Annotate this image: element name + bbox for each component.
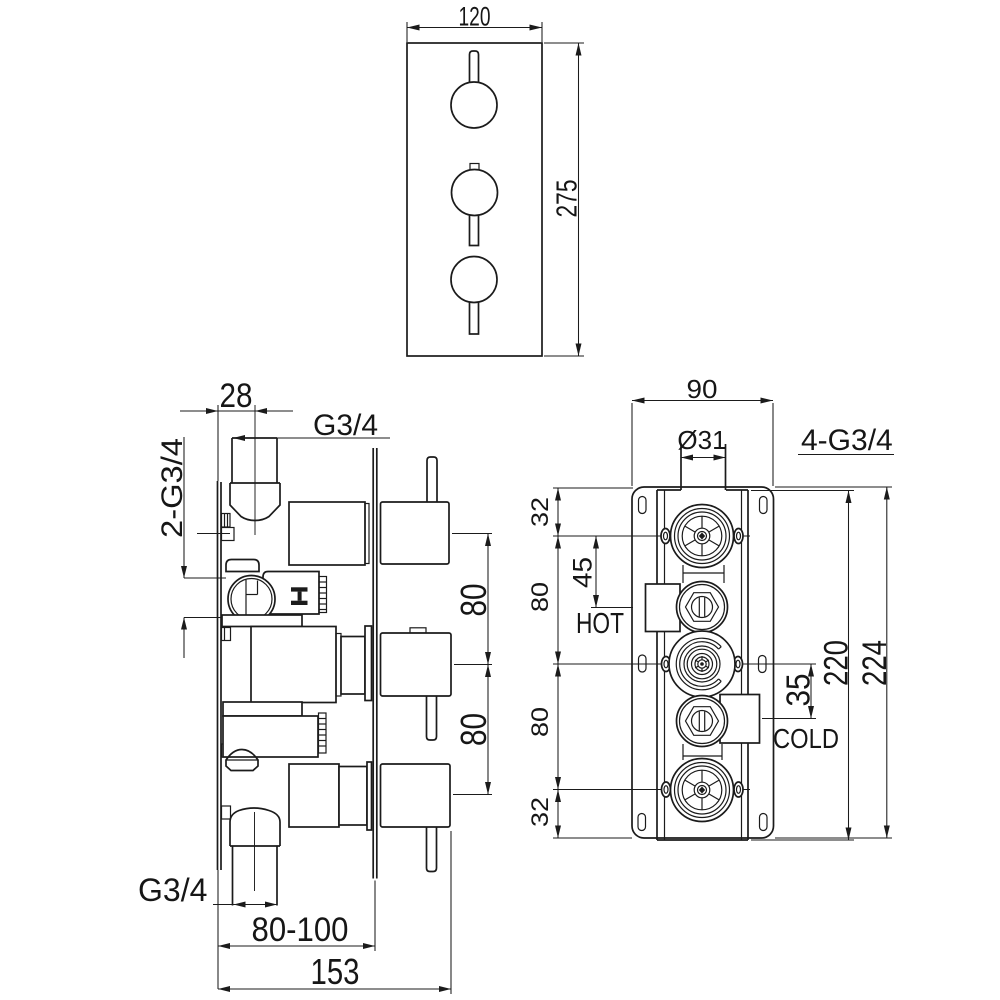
face plate [407, 43, 542, 356]
bottom pipe centerline [254, 812, 256, 891]
dimension 28 line [180, 410, 293, 412]
plate tab 1 [222, 528, 235, 541]
svg-text:32: 32 [527, 497, 554, 527]
svg-text:224: 224 [856, 640, 894, 686]
dimension 80-100 extension right [374, 881, 376, 952]
svg-text:G3/4: G3/4 [138, 872, 207, 908]
handle 3 knob [451, 257, 497, 303]
svg-text:28: 28 [220, 377, 253, 415]
port 5 ears [662, 782, 671, 797]
svg-text:45: 45 [568, 557, 598, 588]
svg-text:35: 35 [780, 674, 817, 707]
port connector 1-2 [682, 565, 684, 583]
screw slot bottom-right [760, 814, 768, 831]
svg-text:80: 80 [453, 584, 494, 617]
cartridge cap row2 [226, 560, 259, 572]
handle 3 stem [470, 300, 479, 334]
knob row1 [381, 502, 450, 564]
handle 2 knob [452, 170, 498, 216]
svg-text:2-G3/4: 2-G3/4 [156, 438, 189, 538]
dimension 80 lower line [557, 664, 559, 790]
dimension 220 line [848, 491, 850, 841]
knob row5 [381, 764, 451, 827]
valve body row3 [251, 627, 336, 703]
mounting plate [632, 487, 774, 838]
svg-text:COLD: COLD [773, 723, 839, 754]
top pipe stub [680, 444, 682, 490]
dimension 90 line [632, 400, 773, 402]
plate screw boss 3 [222, 744, 231, 757]
body spine bottom edge [657, 839, 748, 841]
body spine top edge [657, 489, 681, 491]
svg-text:80-100: 80-100 [252, 911, 349, 949]
spindle row5 [339, 767, 367, 826]
knob row3 tab [410, 628, 426, 633]
svg-text:32: 32 [527, 797, 554, 827]
svg-text:HOT: HOT [576, 608, 624, 640]
rear port reference line lower (2-G3/4) [184, 617, 221, 619]
screw slot top-left [639, 497, 647, 514]
dimension 80 (upper) line [487, 534, 489, 665]
plate screw boss 4 [222, 806, 231, 819]
left chain extension bottom [553, 837, 632, 839]
wall plate (thin bracket, two lines) [217, 481, 219, 870]
svg-text:4-G3/4: 4-G3/4 [801, 424, 893, 457]
svg-text:80: 80 [527, 707, 554, 737]
top inlet pipe [231, 438, 233, 483]
label 4-G3/4 underline [798, 454, 894, 456]
row1 center extension [452, 533, 492, 535]
dimension 120 extension lines [406, 22, 408, 42]
port 1 centerline [553, 535, 750, 537]
handle 2 tab [470, 164, 479, 171]
port 2 (hex plug) [677, 582, 728, 633]
cartridge keyway [245, 580, 247, 619]
plate bottom extension right [775, 837, 892, 839]
cartridge body row2 [263, 572, 319, 615]
port 3 ears [662, 657, 671, 672]
handle 2 stem [470, 213, 479, 246]
cartridge port circle row2 [228, 576, 275, 623]
svg-text:120: 120 [459, 2, 491, 32]
ring row5 [367, 762, 372, 830]
knob row5 stem [427, 827, 437, 872]
svg-text:153: 153 [311, 951, 360, 992]
body ring row1 [365, 504, 369, 564]
dimension 2-G3/4 lines [183, 437, 185, 578]
dimension 275 extension lines [544, 42, 584, 44]
port 3 centerline [553, 663, 816, 665]
knob row3 [381, 633, 452, 696]
left chain extension top [553, 487, 633, 489]
valve body row1 [289, 502, 365, 565]
port 3 (center, thermostat cartridge retainer) [669, 631, 735, 697]
dimension 35 line [810, 664, 812, 719]
svg-text:Ø31: Ø31 [677, 425, 726, 455]
plate screw boss 1 [222, 514, 231, 528]
dimension 45 line [595, 536, 597, 608]
dimension O31 line on pipe stub [681, 457, 726, 459]
handle 1 stem [470, 51, 479, 83]
diverter splines row4 [319, 713, 327, 753]
port 1 (top outlet, spoked plug) [671, 505, 734, 568]
dimension 275 line [578, 43, 580, 356]
bottom outlet pipe [232, 846, 234, 906]
rear port reference line upper (2-G3/4) [184, 577, 226, 579]
label G3/4 bottom leader + arrows [213, 904, 277, 906]
dimension 153 extension right [450, 831, 452, 994]
knob row1 stem [427, 457, 437, 502]
dimension 80 upper line [557, 536, 559, 664]
port 5 (bottom outlet, spoked plug) [671, 759, 734, 822]
outlet boss cap row4 [226, 750, 258, 771]
plate screw boss 2 [222, 628, 231, 641]
dimension 45 extension [591, 607, 633, 609]
svg-text:G3/4: G3/4 [313, 409, 378, 442]
hot mark H (rotated) [291, 587, 308, 591]
cartridge splines row2 [319, 577, 327, 613]
diverter body row4 [223, 716, 318, 757]
face plate edge-on (two long lines) [372, 448, 374, 879]
row1 centerline stub [197, 533, 230, 535]
row3 center extension [454, 664, 492, 666]
screw slot bottom-left [638, 814, 646, 831]
dimension 90 extension lines [631, 403, 633, 486]
body spine inner edges [664, 490, 666, 840]
port 1 ears [661, 529, 670, 544]
dimension 32 bottom line [557, 790, 559, 839]
plate top extension right [775, 486, 892, 488]
knob row3 stem [427, 696, 437, 740]
port 4 (hex plug) [677, 696, 728, 747]
spindle row3 [341, 637, 365, 695]
top inlet pipe centerline [254, 405, 256, 535]
diverter spacer bar row4 [223, 702, 302, 716]
dimension 80-100 line [218, 945, 375, 947]
bottom outlet elbow [230, 808, 280, 846]
svg-text:80: 80 [453, 713, 494, 746]
ring row3 [365, 626, 372, 701]
wall plate back edge extension upper [217, 405, 219, 481]
screw slot top-right [760, 497, 768, 514]
dimension 120 line [407, 27, 542, 29]
screw slot mid-right [759, 656, 767, 673]
svg-text:80: 80 [527, 582, 554, 612]
svg-text:220: 220 [817, 640, 855, 686]
spacer bar below cartridge [222, 615, 302, 627]
handle 1 knob [451, 82, 497, 128]
port 5 centerline [553, 789, 750, 791]
dimension 220 extensions [751, 490, 854, 492]
dimension 32 top line [557, 488, 559, 536]
dimension 35 extension bottom [762, 718, 816, 720]
dimension 224 line [886, 487, 888, 838]
body spine outer edges [656, 490, 658, 840]
dimension 80 (lower) line [487, 665, 489, 795]
label G3/4 top leader [233, 437, 390, 439]
wall plate back edge extension lower [217, 870, 219, 989]
HOT inlet box [646, 584, 681, 632]
svg-text:90: 90 [687, 374, 718, 404]
valve body row5 [289, 764, 339, 827]
port connector 4-5 [682, 744, 684, 760]
dimension 153 line [218, 988, 451, 990]
svg-text:275: 275 [552, 180, 584, 218]
COLD inlet box [720, 695, 760, 744]
body cap row3 [336, 634, 341, 697]
row5 center extension [453, 794, 492, 796]
top elbow [230, 483, 280, 521]
screw slot mid-left [639, 655, 647, 672]
